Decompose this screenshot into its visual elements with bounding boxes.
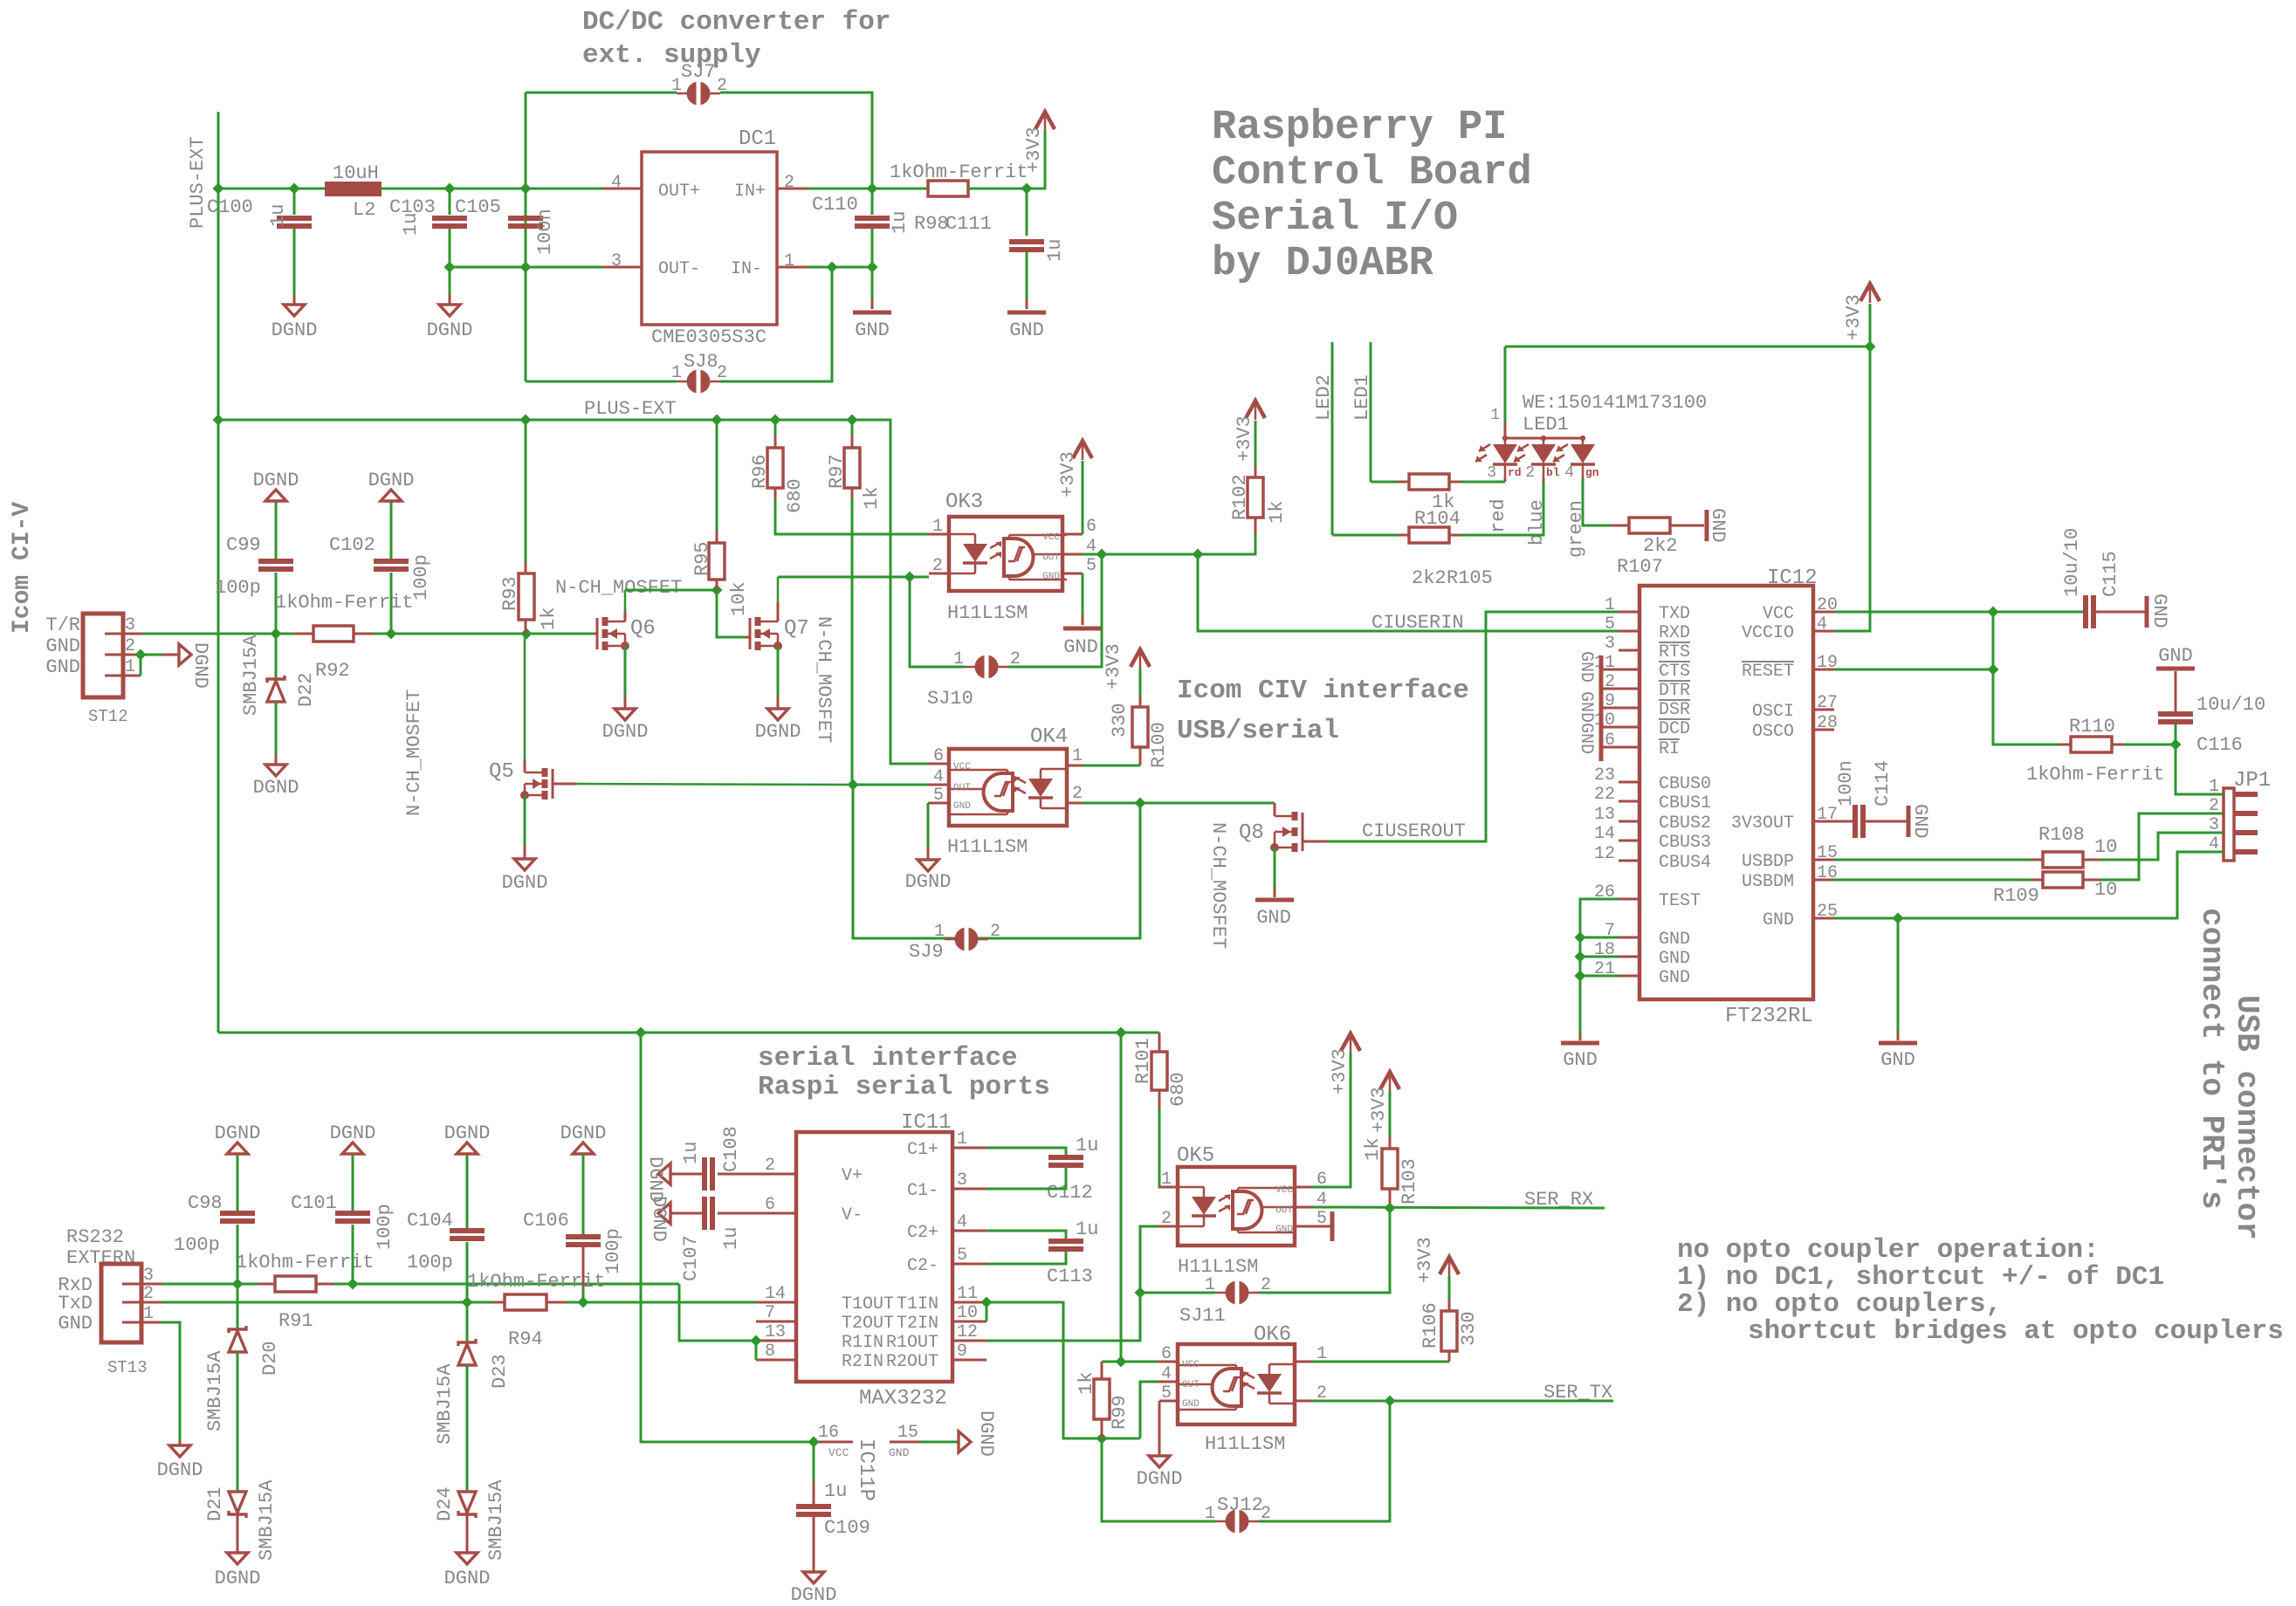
svg-text:R2OUT: R2OUT — [886, 1352, 938, 1372]
svg-text:Q7: Q7 — [784, 617, 809, 641]
svg-text:1: 1 — [953, 649, 964, 669]
svg-text:R102: R102 — [1229, 474, 1251, 520]
svg-text:WE:150141M173100: WE:150141M173100 — [1523, 392, 1707, 414]
wire C116 bottom — [2175, 724, 2177, 745]
ground DGND below D24 — [457, 1553, 478, 1564]
LED1 common anode rail — [1504, 422, 1507, 438]
junction R96 top — [770, 415, 781, 426]
wire C103 top lead — [449, 189, 451, 215]
wire GND to JP1 pin4 — [1834, 852, 2224, 918]
svg-text:VCC: VCC — [953, 762, 971, 772]
svg-text:by DJ0ABR: by DJ0ABR — [1212, 241, 1434, 287]
svg-text:OUT: OUT — [953, 783, 971, 793]
wire CIUSERIN — [1198, 554, 1619, 631]
svg-text:OUT: OUT — [1042, 552, 1060, 563]
svg-text:no opto coupler operation:: no opto coupler operation: — [1677, 1235, 2100, 1266]
svg-text:GND: GND — [58, 1313, 93, 1335]
transistor Q6 N-CH MOSFET — [602, 617, 608, 626]
junction C99 — [271, 628, 282, 640]
wire C111 bottom lead — [1026, 252, 1028, 299]
wire R101 to OK5 pin1 — [1159, 1108, 1178, 1187]
svg-text:GND: GND — [1909, 804, 1931, 839]
svg-text:DC/DC converter for: DC/DC converter for — [582, 7, 890, 38]
svg-text:100p: 100p — [410, 554, 432, 601]
pin 16 USBDM IC12 — [1813, 879, 1834, 882]
wire C107 to DGND left — [670, 1212, 702, 1215]
wire R1IN-R2IN tie — [755, 1341, 758, 1360]
wire top rail to DC1 pin4 — [382, 188, 602, 190]
svg-text:CBUS1: CBUS1 — [1659, 793, 1711, 813]
svg-text:DC1: DC1 — [739, 127, 776, 151]
wire serial rail — [218, 1032, 1159, 1034]
wire pin15 to DGND — [920, 1441, 959, 1444]
wire ST13 GND down — [161, 1322, 180, 1440]
svg-text:C111: C111 — [945, 213, 992, 235]
capacitor C104 100p — [450, 1228, 485, 1233]
svg-text:14: 14 — [1594, 824, 1615, 844]
svg-text:GND: GND — [1063, 636, 1098, 658]
svg-text:1: 1 — [1605, 595, 1615, 615]
diode D24 SMBJ15A — [458, 1511, 476, 1518]
svg-text:USB/serial: USB/serial — [1177, 716, 1339, 746]
svg-text:C109: C109 — [824, 1517, 870, 1539]
svg-text:2k2: 2k2 — [1643, 535, 1678, 557]
capacitor C109 1u — [796, 1504, 831, 1509]
svg-text:gn: gn — [1585, 466, 1599, 479]
ground DGND above C104 — [457, 1143, 478, 1154]
wire OK6 GND down — [1158, 1401, 1161, 1456]
ground GND at C114 — [1907, 806, 1911, 837]
anode dot green LED — [1580, 436, 1585, 441]
pin 18 GND IC12 — [1619, 956, 1640, 958]
junction R97 top — [847, 415, 858, 426]
wire LED2 to R105 — [1332, 534, 1398, 537]
wire R105 to blue LED cathode — [1461, 482, 1543, 535]
svg-text:LED1: LED1 — [1523, 414, 1569, 436]
pin 11 T1IN IC11 — [952, 1301, 986, 1304]
svg-text:C115: C115 — [2100, 551, 2121, 597]
pin stubs OK4 — [929, 763, 949, 765]
wire SER_RX — [1313, 1207, 1605, 1208]
ground GND below IC12 left — [1561, 1041, 1599, 1046]
svg-text:DGND: DGND — [444, 1122, 491, 1144]
svg-text:DGND: DGND — [215, 1568, 261, 1589]
svg-text:2: 2 — [125, 636, 135, 656]
svg-text:GND: GND — [889, 1446, 910, 1459]
svg-text:100n: 100n — [534, 209, 556, 255]
svg-text:1kOhm-Ferrit: 1kOhm-Ferrit — [275, 592, 413, 614]
svg-text:DGND: DGND — [215, 1122, 261, 1144]
svg-text:SMBJ15A: SMBJ15A — [240, 635, 262, 716]
svg-text:5: 5 — [933, 786, 944, 806]
wire C98 bottom lead — [237, 1225, 239, 1284]
wire Q7 drain to OK3 pin2 — [778, 576, 929, 579]
capacitor C102 — [374, 559, 409, 564]
wire to R99 top — [1102, 1361, 1121, 1363]
wire Q6 drain riser — [624, 590, 627, 621]
svg-text:R100: R100 — [1148, 722, 1170, 768]
svg-text:Q8: Q8 — [1239, 821, 1264, 845]
power +3V3 above R102 — [1246, 401, 1265, 418]
svg-text:3: 3 — [1605, 634, 1615, 654]
svg-text:CIUSEROUT: CIUSEROUT — [1362, 820, 1466, 842]
capacitor C108 1u — [702, 1157, 707, 1191]
wire Q5 gate row — [553, 783, 576, 786]
pin 7 T2OUT IC11 — [756, 1321, 796, 1323]
wire Q7 drain riser — [777, 602, 780, 621]
pin 6 RI IC12 — [1619, 746, 1640, 749]
capacitor C99 — [258, 559, 293, 564]
svg-text:GND: GND — [1763, 910, 1794, 930]
wire C102 bottom lead — [390, 573, 393, 634]
resistor R107 2k2 — [1629, 518, 1670, 533]
svg-text:ST12: ST12 — [88, 707, 128, 726]
capacitor C112 1u — [1048, 1155, 1083, 1160]
ground DGND below C109 — [803, 1572, 824, 1583]
svg-text:6: 6 — [1086, 517, 1096, 537]
svg-text:27: 27 — [1817, 693, 1838, 713]
IC IC12 FT232RL — [1640, 586, 1813, 999]
ground GND OK3 — [1063, 627, 1102, 631]
svg-text:GND: GND — [1659, 949, 1690, 969]
wire OK4 pin2 row — [1082, 802, 1275, 805]
resistor R96 680 — [767, 448, 783, 488]
wire 3V3OUT to C114 — [1834, 820, 1853, 823]
pin 28 OSCO IC12 — [1813, 729, 1834, 731]
svg-text:5: 5 — [1086, 556, 1096, 576]
svg-text:11: 11 — [957, 1284, 978, 1304]
svg-text:GND: GND — [1042, 572, 1060, 582]
pin 3 C1- IC11 — [952, 1188, 986, 1191]
svg-text:connect to PRI's: connect to PRI's — [2194, 908, 2230, 1210]
svg-text:GND: GND — [1275, 1225, 1293, 1235]
svg-text:CBUS2: CBUS2 — [1659, 813, 1711, 834]
LED green element — [1582, 438, 1585, 444]
svg-text:RTS: RTS — [1659, 642, 1690, 662]
svg-text:red: red — [1488, 498, 1509, 533]
svg-text:R110: R110 — [2069, 716, 2115, 738]
wire R102 bottom — [1198, 534, 1255, 554]
svg-text:OK5: OK5 — [1177, 1144, 1214, 1168]
svg-text:100p: 100p — [602, 1228, 624, 1274]
svg-text:R92: R92 — [315, 660, 350, 682]
wire D22 to DGND — [275, 702, 278, 754]
wire LED2 net vertical — [1331, 342, 1334, 535]
svg-text:1u: 1u — [720, 1227, 742, 1250]
IC DC1 CME0305S3C — [642, 152, 777, 325]
svg-text:C99: C99 — [226, 534, 261, 556]
svg-text:Raspi serial ports: Raspi serial ports — [758, 1072, 1050, 1102]
svg-text:SER_RX: SER_RX — [1524, 1189, 1593, 1211]
solder jumper SJ11 — [1226, 1281, 1249, 1305]
svg-text:DTR: DTR — [1659, 681, 1690, 701]
svg-text:GND: GND — [1256, 907, 1291, 929]
anode dot blue LED — [1541, 436, 1546, 441]
resistor R93 1k — [525, 420, 527, 562]
svg-text:OUT-: OUT- — [658, 259, 700, 279]
resistor R102 1k — [1248, 477, 1263, 518]
capacitor C100 — [277, 216, 312, 221]
svg-text:GND: GND — [1182, 1399, 1200, 1410]
wire green LED to R107 — [1583, 478, 1610, 525]
svg-text:R107: R107 — [1617, 556, 1663, 578]
svg-text:+3V3: +3V3 — [1103, 643, 1124, 690]
junction OK6 VCC/R99 — [1116, 1356, 1127, 1368]
svg-text:DGND: DGND — [1137, 1468, 1183, 1490]
junction C100 top — [289, 183, 300, 195]
svg-text:1) no DC1, shortcut +/- of DC1: 1) no DC1, shortcut +/- of DC1 — [1677, 1262, 2164, 1293]
svg-text:5: 5 — [1161, 1383, 1172, 1404]
ground GND under C111 — [1007, 311, 1046, 315]
ground DGND OK6 — [1149, 1456, 1170, 1467]
svg-text:D24: D24 — [434, 1486, 456, 1521]
svg-text:Q5: Q5 — [489, 760, 514, 784]
svg-text:TEST: TEST — [1659, 891, 1701, 911]
svg-text:7: 7 — [765, 1303, 775, 1323]
resistor R106 330 — [1448, 1351, 1451, 1362]
wire PLUS-EXT left vertical bus — [217, 112, 220, 1033]
svg-text:2: 2 — [990, 922, 1000, 942]
wire C104 bottom lead — [466, 1242, 469, 1302]
svg-text:1u: 1u — [1076, 1135, 1098, 1156]
svg-text:C112: C112 — [1047, 1182, 1093, 1204]
wire Q6 gate — [594, 633, 597, 635]
wire OK3 GND down — [1082, 573, 1084, 614]
svg-text:DGND: DGND — [648, 1196, 670, 1242]
solder jumper SJ10 — [975, 655, 999, 679]
Q7 gate stub — [777, 596, 779, 621]
resistor R95 10k — [709, 543, 725, 580]
wire IN+ to R98 — [808, 188, 928, 190]
ground DGND above C98 — [227, 1143, 248, 1154]
svg-text:1k: 1k — [1362, 1138, 1384, 1161]
inductor L2 — [325, 182, 382, 196]
resistor R99 1k — [1101, 1362, 1103, 1379]
wire CIUSEROUT to TXD — [1327, 612, 1619, 841]
optocoupler OK5 H11L1SM — [1178, 1167, 1295, 1246]
svg-text:13: 13 — [765, 1322, 786, 1342]
wire +3V3 to R103 — [1389, 1091, 1392, 1136]
capacitor C101 100p — [335, 1211, 370, 1216]
diode D23 SMBJ15A — [458, 1339, 476, 1346]
svg-text:100n: 100n — [1835, 760, 1857, 806]
resistor R109 10 — [2043, 872, 2083, 888]
pin stubs OK5 — [1159, 1186, 1178, 1189]
svg-text:1: 1 — [932, 517, 943, 537]
svg-text:4: 4 — [1817, 614, 1827, 635]
svg-text:H11L1SM: H11L1SM — [1178, 1256, 1258, 1278]
svg-text:C2+: C2+ — [907, 1223, 938, 1243]
svg-text:1u: 1u — [824, 1480, 847, 1502]
svg-text:R1IN: R1IN — [842, 1333, 883, 1353]
wire C110 top lead — [871, 189, 874, 215]
wire GND21 — [1580, 975, 1619, 978]
pin 14 T1OUT IC11 — [756, 1301, 796, 1304]
svg-text:1u: 1u — [1076, 1218, 1098, 1240]
junction C104/D23 — [462, 1297, 473, 1308]
ground DGND at C108 — [658, 1163, 670, 1184]
wire LED1 net vertical — [1370, 342, 1372, 482]
svg-text:330: 330 — [1458, 1311, 1480, 1346]
svg-text:SJ8: SJ8 — [684, 351, 718, 373]
wire C108 to DGND left — [670, 1173, 702, 1176]
wire R110 to C116 node — [2124, 744, 2176, 746]
svg-text:2: 2 — [1525, 464, 1535, 482]
svg-text:C102: C102 — [329, 534, 375, 556]
wire C106 bottom lead — [582, 1247, 585, 1288]
svg-text:1: 1 — [1161, 1170, 1172, 1190]
pin 14 CBUS3 IC12 — [1619, 840, 1640, 842]
svg-text:GND: GND — [2158, 645, 2193, 667]
svg-text:OK6: OK6 — [1254, 1323, 1291, 1347]
svg-text:N-CH_MOSFET: N-CH_MOSFET — [555, 577, 682, 599]
capacitor C107 1u — [702, 1197, 707, 1230]
wire OK5 GND — [1313, 1225, 1332, 1228]
svg-text:C98: C98 — [188, 1192, 223, 1214]
ground DGND at C107 — [658, 1203, 670, 1224]
wire +3V3 to R100 — [1139, 669, 1142, 696]
wire T1IN-T2IN tie — [986, 1302, 988, 1321]
optocoupler OK3 H11L1SM — [949, 517, 1062, 591]
svg-text:1u: 1u — [680, 1142, 702, 1164]
ground DGND at ST12 — [179, 644, 191, 665]
svg-text:OK3: OK3 — [945, 491, 983, 514]
power +3V3 above R100 — [1131, 649, 1150, 667]
junction C116 — [2170, 739, 2182, 751]
wire C1+ to C112 — [986, 1148, 1066, 1155]
resistor R94 1kOhm-Ferrit — [505, 1294, 547, 1310]
wire Q7 source down — [777, 646, 780, 695]
svg-text:TXD: TXD — [1659, 604, 1690, 624]
svg-text:5: 5 — [1605, 614, 1615, 635]
svg-text:1k: 1k — [1076, 1372, 1097, 1395]
pin 10 T2IN IC11 — [952, 1321, 986, 1323]
ground DGND below C100 — [284, 305, 305, 316]
wire +3V3 to R102 — [1255, 421, 1257, 465]
junction C102 — [386, 628, 397, 640]
wire SJ7/SJ8 left loop vertical — [525, 93, 527, 381]
junction R103/SJ11 — [1385, 1203, 1396, 1214]
svg-text:1: 1 — [1205, 1504, 1215, 1524]
svg-text:R101: R101 — [1132, 1038, 1154, 1084]
svg-text:3: 3 — [1487, 464, 1496, 482]
wire SJ11 right riser — [1259, 1208, 1390, 1293]
ground DGND at IC11 pin15 — [959, 1431, 971, 1452]
junction C101 — [347, 1279, 359, 1290]
resistor R110 1kOhm-Ferrit — [2071, 737, 2112, 752]
svg-text:+3V3: +3V3 — [1329, 1048, 1351, 1095]
svg-text:10u/10: 10u/10 — [2061, 528, 2083, 597]
svg-text:+3V3: +3V3 — [1414, 1237, 1436, 1283]
wire D21 to DGND — [237, 1514, 239, 1553]
svg-text:1: 1 — [957, 1129, 967, 1150]
wire +3V3 to OK3 VCC — [1082, 461, 1084, 534]
svg-text:4: 4 — [611, 173, 622, 193]
wire C101 top lead — [352, 1154, 354, 1211]
wire +3V3 to VCCIO — [1834, 347, 1870, 631]
svg-text:N-CH_MOSFET: N-CH_MOSFET — [813, 616, 835, 743]
svg-text:SJ12: SJ12 — [1217, 1494, 1263, 1516]
svg-text:GND: GND — [1659, 930, 1690, 950]
wire LED1 to R104 — [1371, 481, 1398, 484]
IC IC11 MAX3232 — [796, 1132, 952, 1382]
svg-text:GND: GND — [1880, 1049, 1915, 1071]
svg-text:C104: C104 — [407, 1210, 453, 1232]
svg-text:DGND: DGND — [272, 319, 318, 341]
svg-text:IC11: IC11 — [901, 1111, 952, 1135]
svg-text:100p: 100p — [174, 1234, 220, 1256]
ground GND Q8 — [1255, 898, 1294, 903]
svg-text:GND: GND — [2148, 594, 2170, 628]
wire C99 top lead — [275, 501, 278, 559]
LED red element — [1504, 438, 1507, 444]
svg-text:C100: C100 — [207, 196, 253, 218]
diode D20 SMBJ15A — [229, 1326, 246, 1333]
wire C110 bottom lead — [871, 229, 874, 267]
svg-text:CTS: CTS — [1659, 662, 1690, 682]
wire V- stub to C107 — [718, 1212, 756, 1215]
svg-text:D21: D21 — [204, 1486, 226, 1521]
svg-text:1: 1 — [125, 657, 135, 677]
junction IC11 VCC riser — [636, 1027, 647, 1039]
svg-text:1: 1 — [1205, 1275, 1215, 1295]
wire riser to OK6 OUT — [1140, 1382, 1158, 1438]
svg-text:R1OUT: R1OUT — [886, 1333, 938, 1353]
wire to D22 — [275, 634, 278, 679]
svg-text:OUT: OUT — [1182, 1380, 1200, 1390]
resistor R97 1k — [844, 448, 860, 488]
wire to D20 — [237, 1284, 239, 1331]
wire GND18 — [1580, 956, 1619, 958]
junction C105 top / SJ7 loop — [520, 183, 532, 195]
pin 4 C2+ IC11 — [952, 1230, 986, 1232]
svg-text:13: 13 — [1594, 805, 1615, 825]
resistor R92 — [313, 626, 354, 642]
svg-text:9: 9 — [957, 1342, 967, 1362]
wire RxD row — [162, 1283, 679, 1286]
svg-text:DGND: DGND — [975, 1410, 997, 1457]
svg-text:R95: R95 — [691, 541, 713, 576]
pin 23 CBUS0 IC12 — [1619, 781, 1640, 784]
svg-text:3V3OUT: 3V3OUT — [1731, 813, 1794, 834]
svg-text:DGND: DGND — [602, 721, 649, 743]
pin 25 GND IC12 — [1813, 917, 1834, 920]
svg-text:+3V3: +3V3 — [1023, 127, 1045, 173]
wire IN- row — [808, 266, 872, 269]
junction R1IN/R2IN — [751, 1335, 762, 1347]
wire T/R row — [142, 633, 594, 635]
svg-text:H11L1SM: H11L1SM — [947, 602, 1028, 624]
svg-text:C101: C101 — [291, 1192, 337, 1214]
svg-text:4: 4 — [957, 1212, 967, 1232]
junction C115 branch — [1988, 607, 1999, 618]
ground DGND OK4 — [918, 860, 938, 871]
wire R95 node to Q7 gate — [717, 590, 745, 637]
pin 13 R1IN IC11 — [756, 1340, 796, 1342]
svg-text:23: 23 — [1594, 765, 1615, 786]
svg-text:+3V3: +3V3 — [1368, 1087, 1390, 1133]
svg-text:SMBJ15A: SMBJ15A — [434, 1363, 456, 1445]
pin 2 DTR IC12 — [1619, 688, 1640, 690]
anode dot red LED — [1502, 436, 1508, 441]
wire to GND under C110 — [871, 267, 874, 299]
svg-text:DGND: DGND — [253, 777, 299, 799]
svg-text:4: 4 — [1161, 1364, 1172, 1384]
svg-text:GND: GND — [1009, 319, 1044, 341]
pin 5 RXD IC12 — [1619, 630, 1640, 633]
svg-text:1: 1 — [671, 363, 682, 383]
svg-text:GND: GND — [953, 801, 971, 812]
